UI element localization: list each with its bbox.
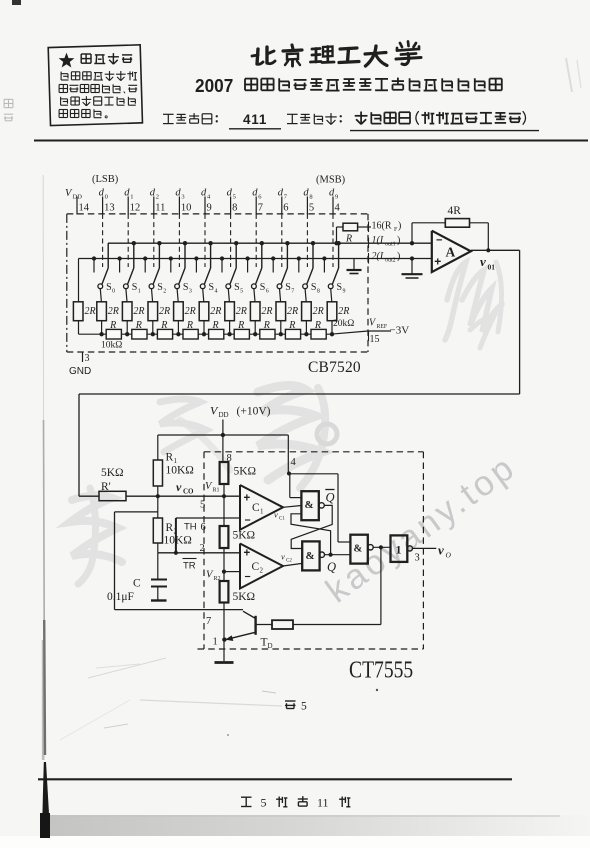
svg-text:7: 7 xyxy=(291,289,294,295)
svg-text:C: C xyxy=(252,561,260,573)
svg-text:1: 1 xyxy=(396,543,402,557)
svg-text:2R: 2R xyxy=(261,306,272,317)
svg-text:&: & xyxy=(305,499,314,511)
svg-text:1(I: 1(I xyxy=(372,235,384,246)
svg-text:4: 4 xyxy=(215,289,218,295)
svg-text:16(R: 16(R xyxy=(372,220,392,231)
svg-text:4R: 4R xyxy=(448,205,462,217)
svg-text:9: 9 xyxy=(335,194,338,201)
svg-text:2R: 2R xyxy=(108,306,119,317)
svg-text:(+10V): (+10V) xyxy=(237,406,271,418)
svg-text:REF: REF xyxy=(377,324,388,330)
svg-text:DD: DD xyxy=(219,411,229,419)
svg-text:2R: 2R xyxy=(85,306,96,317)
svg-text:2: 2 xyxy=(156,194,159,201)
svg-text:0.1μF: 0.1μF xyxy=(107,591,134,603)
svg-text:2R: 2R xyxy=(210,306,221,317)
svg-text:−: − xyxy=(245,571,251,583)
svg-text:5KΩ: 5KΩ xyxy=(233,530,256,542)
svg-text:2R: 2R xyxy=(236,306,247,317)
svg-text:2(I: 2(I xyxy=(372,251,384,262)
svg-text:1: 1 xyxy=(130,194,133,201)
svg-text:14: 14 xyxy=(79,203,90,214)
svg-text:5: 5 xyxy=(240,289,243,295)
svg-text:5KΩ: 5KΩ xyxy=(234,466,257,478)
svg-text:): ) xyxy=(398,220,401,231)
svg-text:+: + xyxy=(434,254,441,268)
svg-text:GND: GND xyxy=(69,366,91,377)
svg-text:10: 10 xyxy=(181,203,192,214)
svg-text:−: − xyxy=(245,515,251,527)
svg-text:13: 13 xyxy=(104,203,115,214)
svg-text:): ) xyxy=(397,251,400,262)
svg-text:C: C xyxy=(252,502,260,514)
svg-text:&: & xyxy=(306,550,315,562)
svg-text:R: R xyxy=(166,452,174,464)
svg-text:6: 6 xyxy=(201,522,206,533)
svg-text:R: R xyxy=(160,320,167,331)
svg-text:20kΩ: 20kΩ xyxy=(333,319,354,329)
svg-text:3: 3 xyxy=(415,553,420,564)
svg-text:v: v xyxy=(438,543,444,558)
svg-text:S: S xyxy=(285,282,291,293)
svg-text:S: S xyxy=(183,282,189,293)
svg-text:8: 8 xyxy=(317,289,320,295)
svg-text:A: A xyxy=(446,245,456,260)
svg-text:8: 8 xyxy=(309,194,312,201)
svg-text:11: 11 xyxy=(155,203,165,214)
svg-text:3: 3 xyxy=(181,194,184,201)
svg-text:2R: 2R xyxy=(159,306,170,317)
svg-text:2R: 2R xyxy=(338,306,349,317)
svg-text:10KΩ: 10KΩ xyxy=(166,465,194,477)
svg-text:Q: Q xyxy=(327,560,336,574)
svg-text:5KΩ: 5KΩ xyxy=(101,467,124,479)
svg-text:8: 8 xyxy=(232,203,237,214)
svg-text:Q: Q xyxy=(326,491,335,505)
svg-text:7: 7 xyxy=(258,203,263,214)
svg-text:7: 7 xyxy=(206,616,211,627)
svg-text:01: 01 xyxy=(488,263,496,272)
svg-text:TR: TR xyxy=(183,561,196,572)
svg-text:−3V: −3V xyxy=(390,325,410,337)
svg-text:S: S xyxy=(311,282,317,293)
svg-text:5: 5 xyxy=(233,194,236,201)
svg-text:R: R xyxy=(186,320,193,331)
svg-text:T: T xyxy=(261,637,268,649)
svg-text:R: R xyxy=(263,320,270,331)
svg-text:2: 2 xyxy=(260,567,264,575)
svg-text:D: D xyxy=(268,642,273,650)
svg-text:v: v xyxy=(281,552,285,562)
svg-text:2007: 2007 xyxy=(195,75,233,96)
svg-text:R: R xyxy=(345,234,352,245)
svg-text:+: + xyxy=(244,493,251,505)
svg-text:out2: out2 xyxy=(385,257,396,263)
svg-text:3: 3 xyxy=(85,353,90,364)
svg-text:11: 11 xyxy=(317,796,329,810)
svg-text:5: 5 xyxy=(309,203,314,214)
svg-text:4: 4 xyxy=(335,203,341,214)
svg-text:R: R xyxy=(314,320,321,331)
svg-text:10KΩ: 10KΩ xyxy=(164,535,192,547)
svg-text:9: 9 xyxy=(207,203,212,214)
svg-text:CB7520: CB7520 xyxy=(308,359,361,376)
svg-text:−: − xyxy=(436,235,442,247)
svg-text:CT7555: CT7555 xyxy=(349,655,413,683)
svg-text:S: S xyxy=(260,282,266,293)
svg-text:): ) xyxy=(397,235,400,246)
svg-text:2: 2 xyxy=(163,289,166,295)
svg-text:4: 4 xyxy=(291,457,297,468)
svg-text:9: 9 xyxy=(343,289,346,295)
svg-text:S: S xyxy=(209,282,215,293)
svg-text:(MSB): (MSB) xyxy=(316,175,346,186)
svg-text:C: C xyxy=(133,578,141,590)
svg-text:(LSB): (LSB) xyxy=(92,174,119,185)
svg-text:5: 5 xyxy=(261,796,267,810)
svg-text:0: 0 xyxy=(105,194,108,201)
svg-text:R: R xyxy=(288,320,295,331)
svg-text:R: R xyxy=(212,320,219,331)
svg-text:v: v xyxy=(480,254,486,269)
svg-text:O: O xyxy=(446,551,452,560)
svg-text:C1: C1 xyxy=(279,517,285,522)
svg-text:S: S xyxy=(157,282,163,293)
svg-text:R: R xyxy=(109,320,116,331)
svg-text:411: 411 xyxy=(243,112,267,127)
svg-text:0: 0 xyxy=(112,289,115,295)
svg-text:v: v xyxy=(274,510,278,520)
svg-text:TH: TH xyxy=(184,522,197,533)
svg-text:R1: R1 xyxy=(213,488,220,494)
svg-text:6: 6 xyxy=(266,289,269,295)
svg-text:R2: R2 xyxy=(214,576,221,582)
svg-text:1: 1 xyxy=(138,289,141,295)
svg-text:out1: out1 xyxy=(385,242,396,248)
svg-text:v: v xyxy=(176,480,182,494)
svg-text:S: S xyxy=(337,282,343,293)
svg-text:S: S xyxy=(234,282,240,293)
svg-text:&: & xyxy=(354,544,363,555)
svg-text:5KΩ: 5KΩ xyxy=(233,591,256,603)
svg-text:R: R xyxy=(237,320,244,331)
svg-text:1: 1 xyxy=(213,637,218,648)
svg-text:R: R xyxy=(166,522,174,534)
svg-text:15: 15 xyxy=(370,334,380,345)
svg-text:2R: 2R xyxy=(313,306,324,317)
svg-text:C2: C2 xyxy=(286,559,292,564)
svg-text:DD: DD xyxy=(73,194,83,201)
svg-text:12: 12 xyxy=(130,203,141,214)
svg-text:S: S xyxy=(132,282,138,293)
svg-text:R: R xyxy=(135,320,142,331)
svg-text:2R: 2R xyxy=(185,306,196,317)
svg-text:CO: CO xyxy=(183,488,194,496)
svg-text:1: 1 xyxy=(260,508,264,516)
svg-text:5: 5 xyxy=(301,701,307,713)
svg-text:2R: 2R xyxy=(133,306,144,317)
svg-text:6: 6 xyxy=(283,203,288,214)
svg-text:S: S xyxy=(106,282,112,293)
svg-text:+: + xyxy=(244,548,251,560)
svg-text:2R: 2R xyxy=(287,306,298,317)
svg-text:10kΩ: 10kΩ xyxy=(101,341,122,351)
svg-text:3: 3 xyxy=(189,289,192,295)
